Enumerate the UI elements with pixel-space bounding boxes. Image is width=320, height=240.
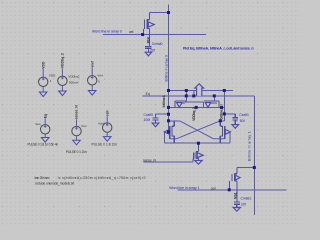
- wire top rail A: [169, 90, 225, 92]
- svg-text:Cself1: Cself1: [239, 113, 249, 117]
- leads Vcell: [106, 116, 109, 136]
- wire word line in array 1: [178, 189, 287, 191]
- junction: rail C center: [195, 106, 198, 109]
- svg-text:Vref: Vref: [97, 73, 103, 77]
- junction: rail C / MP2 drain: [220, 106, 223, 109]
- svg-text:.include onenode_models.txt: .include onenode_models.txt: [35, 182, 75, 186]
- svg-text:VDDbq2: VDDbq2: [68, 74, 80, 78]
- junction: Eq net / MP1 stub: [185, 94, 188, 97]
- junction: bitlineA_r / MN2 drain: [219, 119, 222, 122]
- svg-text:VDDbq_2: VDDbq_2: [192, 107, 196, 121]
- leads Vref: [91, 67, 94, 90]
- junction: Eq net stub: [192, 94, 195, 97]
- svg-text:Cmlat0: Cmlat0: [152, 42, 163, 46]
- svg-text:cell: cell: [129, 30, 134, 34]
- wire nmos1 drain: [169, 120, 180, 122]
- ground Cmlat0: [145, 52, 151, 56]
- voltage source VDD: [39, 77, 48, 86]
- transistor Mb0: [143, 13, 154, 47]
- leads Vsn: [75, 119, 78, 140]
- junction: bitlineA_r / Cself1: [223, 112, 226, 115]
- svg-text:PULSE 0 1.8 12n: PULSE 0 1.8 12n: [92, 143, 118, 147]
- svg-text:Vcell: Vcell: [98, 122, 105, 126]
- svg-text:50f: 50f: [240, 119, 245, 123]
- svg-text:cell: cell: [211, 186, 216, 190]
- wire vertical to PMOS1: [185, 91, 187, 102]
- svg-text:Mb1: Mb1: [234, 192, 238, 199]
- junction: rail D / tail: [197, 142, 200, 145]
- svg-text:Bitline in array 0: Bitline in array 0: [165, 55, 169, 82]
- wire rail B / Eq net: [142, 95, 255, 97]
- wire bitlineA drain link: [149, 12, 168, 14]
- power arrow VDD (latch): [195, 84, 204, 96]
- voltage source VDDbq_2: [58, 76, 67, 85]
- wire vertical to PMOS2: [213, 96, 215, 101]
- ground VDDbq_2: [59, 91, 67, 96]
- junction: bitlineA / Cself0: [167, 113, 170, 116]
- svg-text:900mV: 900mV: [69, 80, 79, 84]
- svg-text:PULSE 0 1.8 1n 0.5n 4n: PULSE 0 1.8 1n 0.5n 4n: [28, 143, 59, 147]
- junction: Mb1 gate on word line 1: [228, 188, 231, 191]
- ground Vref: [88, 91, 96, 96]
- junction: Eq net / MP2 stub: [213, 94, 216, 97]
- svg-text:bitlineA_r: bitlineA_r: [219, 103, 223, 119]
- voltage source Vcell: [103, 123, 112, 132]
- svg-text:vref: vref: [90, 60, 94, 67]
- wire bitlineA_r corner: [220, 120, 224, 122]
- wire Cself0 link: [156, 113, 169, 115]
- junction: bitlineA / rail A: [167, 89, 170, 92]
- junction: cell1 drain / bitline array 1: [253, 166, 256, 169]
- svg-text:Eq: Eq: [146, 92, 150, 96]
- ground Cself0: [152, 123, 159, 127]
- wire bitlineA_r vertical: [223, 91, 225, 121]
- wire cross diagonal D1: [180, 121, 225, 139]
- wire rail A stub right: [224, 90, 233, 92]
- svg-text:sense_N: sense_N: [143, 158, 156, 162]
- svg-text:Vsn: Vsn: [81, 124, 87, 128]
- transistor MP1: [175, 101, 186, 107]
- svg-text:20f: 20f: [241, 203, 246, 207]
- leads VDD: [42, 69, 45, 92]
- ground Msense: [195, 160, 203, 164]
- wire cell1 drain link: [237, 167, 254, 169]
- svg-text:PULSE 0 1 10n: PULSE 0 1 10n: [66, 150, 87, 154]
- svg-text:Word line in array 0: Word line in array 0: [92, 30, 122, 34]
- svg-text:Cself0: Cself0: [144, 113, 154, 117]
- wire cross diagonal D2: [170, 121, 221, 139]
- wire sense_N: [144, 159, 193, 162]
- transistor Mb1: [230, 168, 240, 202]
- svg-text:Eq: Eq: [43, 114, 47, 118]
- svg-text:cell: cell: [105, 110, 109, 116]
- capacitor Cself0: [153, 114, 159, 123]
- svg-text:sense_N: sense_N: [75, 105, 79, 119]
- leads Veq: [44, 118, 47, 137]
- svg-text:Cmlat1: Cmlat1: [241, 197, 252, 201]
- svg-text:Veq: Veq: [35, 122, 41, 126]
- voltage source Vref: [88, 76, 97, 85]
- voltage source Veq: [41, 125, 50, 134]
- svg-text:VDD: VDD: [49, 74, 56, 78]
- svg-text:Mb0: Mb0: [146, 37, 150, 44]
- wire word line in array 0: [103, 34, 206, 36]
- junction: bitlineA / MN1 bulk: [167, 130, 170, 133]
- ground Veq: [41, 138, 49, 143]
- svg-text:tran 20n sec: tran 20n sec: [35, 176, 50, 180]
- junction: bitlineA / rail C: [167, 106, 170, 109]
- wire nmos source rail D: [165, 142, 230, 144]
- voltage source Vsn: [72, 126, 81, 135]
- capacitor Cself1: [233, 114, 239, 125]
- wire nmos2 bulk edge: [229, 132, 231, 143]
- wire Cself1 link: [224, 113, 235, 115]
- svg-text:.ic v(bitlineA)=250m v(bitline: .ic v(bitlineA)=250m v(bitlineA_r)=750m …: [57, 176, 146, 180]
- ground Cself1: [232, 125, 239, 129]
- transistor MN1: [164, 121, 174, 143]
- wire pmos gates: [185, 102, 203, 108]
- junction: rail A / bitlineA_r: [223, 89, 226, 92]
- junction: rail A / MP1: [185, 89, 188, 92]
- ground Cmlat1: [233, 208, 240, 212]
- svg-text:Bitline in array 1: Bitline in array 1: [248, 131, 252, 161]
- transistor MP2: [204, 101, 219, 107]
- ground Vsn: [73, 140, 81, 145]
- svg-text:bitlineA: bitlineA: [162, 94, 166, 107]
- svg-text:Plot Eq, bitlineA, bitlineA_r,: Plot Eq, bitlineA, bitlineA_r, cell, and…: [183, 46, 254, 50]
- capacitor Cmlat0: [145, 46, 152, 52]
- ground VDD: [39, 92, 47, 97]
- junction: cell gate on word line 0: [141, 33, 144, 36]
- svg-text:20f: 20f: [150, 49, 155, 53]
- wire rail B stub: [193, 91, 195, 96]
- svg-text:100f: 100f: [144, 118, 151, 122]
- junction: bitlineA top: [167, 11, 170, 14]
- svg-text:Word line in array 1: Word line in array 1: [169, 186, 199, 190]
- svg-text:VDD: VDD: [41, 61, 45, 69]
- junction: bitlineA / MN1 drain: [167, 119, 170, 122]
- svg-text:VDDbq_2: VDDbq_2: [61, 53, 65, 68]
- wire bitline rail C: [169, 106, 225, 108]
- wire nmos1 bulk edge: [164, 132, 166, 143]
- wire tail drop: [197, 143, 199, 151]
- capacitor Cmlat1: [234, 202, 240, 208]
- leads VDDbq_2: [61, 68, 64, 91]
- ground Vcell: [103, 137, 111, 142]
- wire bitlineA vertical: [168, 5, 170, 132]
- transistor Msense: [193, 143, 203, 160]
- wire bitline array1 vertical: [253, 96, 255, 215]
- transistor MN2: [220, 121, 230, 143]
